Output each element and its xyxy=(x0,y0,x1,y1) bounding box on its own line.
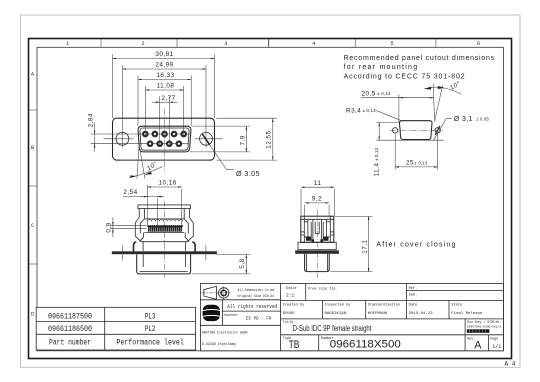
angle arc 10 deg xyxy=(425,87,462,94)
connector body flange xyxy=(298,242,336,249)
svg-text:Final Release: Final Release xyxy=(451,311,483,316)
zone row ticks xyxy=(29,110,38,264)
svg-text:24,99: 24,99 xyxy=(155,62,173,69)
label R3,4 +-0,13 with leader xyxy=(346,107,402,121)
contact row centerlines xyxy=(140,133,191,135)
svg-text:Doc-Key / ECM-Nr.: Doc-Key / ECM-Nr. xyxy=(467,320,502,325)
svg-text:EC PD - FR: EC PD - FR xyxy=(246,316,272,321)
svg-text:DOUGE: DOUGE xyxy=(283,312,296,316)
svg-text:4: 4 xyxy=(312,41,315,47)
svg-text:Ø 3.05: Ø 3.05 xyxy=(236,169,260,178)
dim 11,08 xyxy=(145,83,183,138)
right body side below comb xyxy=(185,233,189,242)
front view vertical centerline xyxy=(164,109,166,173)
svg-text:A: A xyxy=(474,340,482,352)
zone row letters xyxy=(31,72,35,318)
contacts bottom row (pins 6-9) xyxy=(147,140,182,147)
svg-text:Page: Page xyxy=(490,337,498,341)
svg-text:0,9: 0,9 xyxy=(106,222,113,232)
dim 2,84 xyxy=(88,113,142,152)
svg-text:5,8: 5,8 xyxy=(239,258,246,268)
cutout left hole xyxy=(393,128,398,133)
dim 17,1 xyxy=(330,216,372,271)
latch slot right xyxy=(322,222,324,240)
IDC contact comb xyxy=(147,225,183,232)
svg-text:Department: Department xyxy=(224,313,238,317)
dim 10,16 xyxy=(148,180,182,226)
dim 11 xyxy=(301,180,334,216)
svg-text:All Dimensions in mm: All Dimensions in mm xyxy=(238,288,275,293)
svg-text:5: 5 xyxy=(390,41,393,47)
projection symbol circle view xyxy=(202,286,232,300)
svg-text:According to CECC 75 301-802: According to CECC 75 301-802 xyxy=(344,74,465,81)
svg-text:State: State xyxy=(451,303,462,307)
shell body below plate xyxy=(137,254,191,274)
shell inner walls xyxy=(142,254,144,267)
svg-text:1: 1 xyxy=(66,41,69,47)
svg-text:R3,4: R3,4 xyxy=(346,107,361,114)
svg-text:12,55: 12,55 xyxy=(266,131,273,149)
latch black recesses xyxy=(306,237,311,241)
angle ref lines 10 deg xyxy=(433,84,434,122)
cover top inner line xyxy=(301,218,334,220)
dim 2,54 xyxy=(123,189,164,225)
dim 7,9 xyxy=(190,126,251,152)
svg-text:Part number: Part number xyxy=(49,338,91,348)
svg-text:HOFFMANN: HOFFMANN xyxy=(368,312,388,316)
svg-text:Date: Date xyxy=(409,303,418,307)
right rivet centerline xyxy=(205,245,207,260)
svg-text:2:1: 2:1 xyxy=(286,293,295,299)
svg-text:7,9: 7,9 xyxy=(239,135,246,145)
svg-text:All rights reserved: All rights reserved xyxy=(227,304,277,310)
shell bottom inner line xyxy=(140,271,188,273)
contacts top row (pins 1-5) xyxy=(142,131,187,138)
svg-text:D-32339 Espelkamp: D-32339 Espelkamp xyxy=(202,342,237,347)
drawing area inner frame xyxy=(37,47,503,351)
svg-text:3: 3 xyxy=(224,41,227,47)
left body side below comb xyxy=(140,233,144,242)
svg-text:2,77: 2,77 xyxy=(161,95,175,102)
svg-text:20,5: 20,5 xyxy=(362,90,376,97)
D-insert inner contour xyxy=(140,128,189,150)
left wing foot hook xyxy=(134,242,137,252)
svg-text:PL2: PL2 xyxy=(145,325,156,334)
svg-text:11,4: 11,4 xyxy=(373,163,380,177)
dim 25 +-0,13 xyxy=(395,134,438,170)
svg-text:11,08: 11,08 xyxy=(157,83,175,90)
svg-text:90957941/U30D/901/A: 90957941/U30D/901/A xyxy=(467,325,501,329)
cutout right hole xyxy=(435,128,440,133)
shell below plate xyxy=(305,254,330,272)
svg-text:± 0,13: ± 0,13 xyxy=(363,108,377,113)
svg-text:Created by: Created by xyxy=(283,302,305,307)
cover left wall xyxy=(138,209,140,218)
dim 2,77 xyxy=(152,95,178,147)
svg-text:TB: TB xyxy=(289,339,300,351)
dim 11,4 +-0,13 xyxy=(373,122,443,176)
zone column ticks xyxy=(101,39,436,48)
dim 16,33 xyxy=(138,72,191,126)
center post xyxy=(312,219,314,239)
svg-text:Standardisation: Standardisation xyxy=(368,302,400,307)
svg-text:Scale: Scale xyxy=(286,286,297,291)
right hole crosshair xyxy=(195,138,223,140)
svg-text:2,84: 2,84 xyxy=(88,113,95,127)
svg-text:BAGDIKIAN: BAGDIKIAN xyxy=(325,312,347,316)
svg-text:± 0,05: ± 0,05 xyxy=(476,117,490,122)
left latch wing xyxy=(135,217,141,241)
right mounting hole xyxy=(200,132,213,145)
line under comb xyxy=(144,232,184,234)
D-insert outer contour xyxy=(138,126,191,152)
part table grid xyxy=(36,307,195,350)
dim 20,5 +-0,13 xyxy=(361,90,434,122)
svg-text:D-Sub IDC 9P female straight: D-Sub IDC 9P female straight xyxy=(293,324,372,333)
svg-text:09661187500: 09661187500 xyxy=(48,312,92,321)
svg-text:Free size tol.: Free size tol. xyxy=(308,286,338,291)
svg-text:PL3: PL3 xyxy=(145,312,156,321)
svg-text:HARTING Electronics GmbH: HARTING Electronics GmbH xyxy=(202,331,248,336)
mounting plate (section) xyxy=(112,251,217,254)
svg-text:25: 25 xyxy=(406,160,414,167)
shell top line xyxy=(141,241,187,243)
svg-text:Inspected by: Inspected by xyxy=(325,302,352,307)
dim 12,55 xyxy=(217,118,277,160)
dim 9,2 xyxy=(305,196,329,216)
mounting plate (section, bold) xyxy=(295,250,339,253)
svg-text:Ø 3,1: Ø 3,1 xyxy=(454,116,473,123)
cover top cap xyxy=(138,205,191,209)
svg-text:09661186500: 09661186500 xyxy=(48,325,92,334)
front view flange outline xyxy=(113,118,215,160)
svg-text:2013-04-23: 2013-04-23 xyxy=(409,312,434,316)
zone column numbers xyxy=(66,41,480,47)
cover inner walls xyxy=(303,216,305,242)
svg-text:HARTING: HARTING xyxy=(205,312,219,316)
right latch wing xyxy=(187,217,193,241)
svg-text:± 0,13: ± 0,13 xyxy=(414,160,428,165)
right wing foot hook xyxy=(192,242,195,252)
svg-text:D: D xyxy=(31,312,34,318)
cover inner shelf line xyxy=(144,218,184,220)
svg-text:Recommended panel cutout dimen: Recommended panel cutout dimensions xyxy=(344,55,495,62)
svg-text:A 4: A 4 xyxy=(505,361,516,368)
first angle projection symbol cone xyxy=(204,286,217,299)
side notches xyxy=(301,231,305,233)
svg-text:Original Size DIN A4: Original Size DIN A4 xyxy=(238,294,275,299)
svg-text:After cover closing: After cover closing xyxy=(376,241,455,248)
side view centerline xyxy=(163,201,165,278)
cutout contour xyxy=(399,121,432,140)
cover right wall xyxy=(183,209,185,219)
cutout horizontal centerline xyxy=(390,129,443,131)
sheet thick frame xyxy=(29,39,512,359)
left rivet centerline xyxy=(122,245,124,260)
svg-text:± 0,13: ± 0,13 xyxy=(374,147,379,161)
svg-text:2: 2 xyxy=(141,41,144,47)
right shell neck wall xyxy=(185,242,187,251)
wire scallops xyxy=(148,219,183,221)
HARTING logo xyxy=(203,305,220,321)
svg-text:30,81: 30,81 xyxy=(155,51,173,58)
svg-text:B: B xyxy=(31,145,34,151)
latch slot left xyxy=(307,219,309,237)
svg-text:1/1: 1/1 xyxy=(492,344,501,350)
dim 24,99 xyxy=(122,62,206,148)
svg-text:Performance level: Performance level xyxy=(116,338,184,348)
cover box outline xyxy=(301,216,334,242)
svg-text:2,54: 2,54 xyxy=(123,189,137,196)
svg-text:C: C xyxy=(31,223,34,229)
svg-text:Ref.: Ref. xyxy=(409,286,418,291)
left hole crosshair xyxy=(104,138,134,140)
svg-text:0966118X500: 0966118X500 xyxy=(330,339,401,351)
part table entries xyxy=(48,312,184,347)
svg-text:± 0,13: ± 0,13 xyxy=(377,91,391,96)
rear view centerline xyxy=(316,210,318,278)
svg-text:Sub.: Sub. xyxy=(409,293,418,298)
svg-text:11: 11 xyxy=(314,180,322,187)
contact center holes xyxy=(144,133,185,145)
svg-text:9,2: 9,2 xyxy=(312,196,322,203)
left shell neck wall xyxy=(142,242,144,251)
left mounting hole xyxy=(116,132,129,145)
svg-text:10,16: 10,16 xyxy=(158,180,176,187)
svg-text:for rear mounting: for rear mounting xyxy=(344,64,418,71)
dim 0,9 xyxy=(106,217,147,237)
svg-text:17,1: 17,1 xyxy=(362,240,369,254)
slot shelf lines xyxy=(304,221,308,223)
svg-text:16,33: 16,33 xyxy=(156,72,174,79)
svg-text:6: 6 xyxy=(477,41,480,47)
dim 5,8 xyxy=(192,255,251,274)
label dia 3,1 +-0,05 with leader xyxy=(434,116,490,140)
angle dim 10 deg front xyxy=(129,148,163,178)
shell inner walls xyxy=(305,254,307,271)
dim 30,81 xyxy=(113,51,215,118)
leader and label dia 3.05 xyxy=(202,133,260,178)
